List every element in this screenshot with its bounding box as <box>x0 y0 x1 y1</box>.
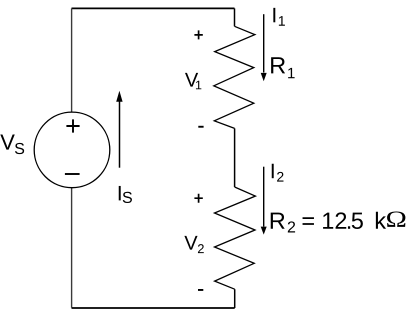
label V2 <box>184 236 197 250</box>
plus label above R1 <box>194 30 202 39</box>
value 12.5 <box>323 212 346 228</box>
wire top <box>72 7 235 9</box>
minus label below R1 <box>198 126 203 128</box>
minus label below R2 <box>198 289 203 291</box>
resistor R1 <box>214 26 255 128</box>
arrow I2 <box>263 167 265 227</box>
plus label above R2 <box>194 194 202 203</box>
label I1 <box>273 8 275 22</box>
label VS <box>0 134 14 149</box>
label R2 <box>271 213 285 229</box>
label IS <box>119 186 121 200</box>
wire right stub bottom <box>234 289 236 308</box>
arrow I1 <box>263 14 265 72</box>
unit Omega <box>387 211 405 226</box>
label V1 <box>185 73 198 87</box>
wire bottom <box>72 307 235 309</box>
label R1 <box>271 57 285 73</box>
resistor R2 <box>215 187 256 289</box>
wire left lower <box>71 188 73 308</box>
voltage source VS circle <box>34 112 110 188</box>
wire left upper <box>71 8 73 112</box>
label I2 <box>272 164 274 178</box>
wire middle stub between resistors <box>234 128 236 187</box>
minus sign inside source <box>65 173 80 175</box>
unit k <box>376 212 386 229</box>
plus sign inside source <box>66 119 79 132</box>
arrow IS <box>119 100 121 168</box>
equals sign <box>303 217 314 225</box>
wire right stub top <box>234 8 236 26</box>
